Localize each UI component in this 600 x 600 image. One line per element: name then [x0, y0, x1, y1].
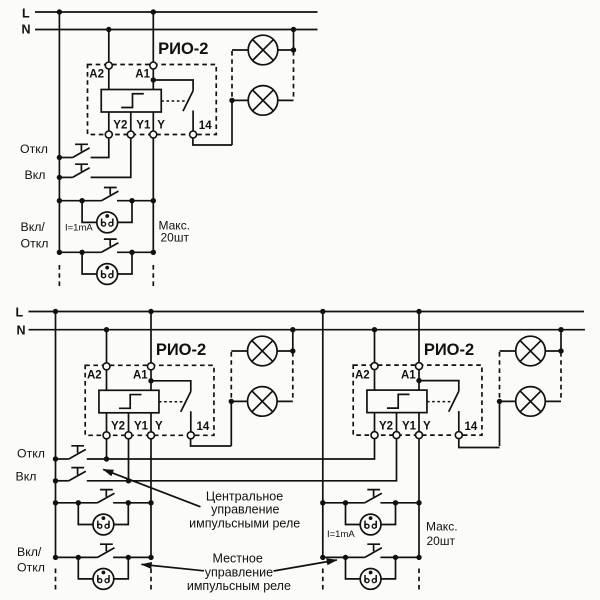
svg-text:Центральное: Центральное [206, 490, 283, 504]
svg-text:Вкл/: Вкл/ [21, 220, 46, 234]
svg-text:управление: управление [211, 503, 279, 517]
svg-text:Макс.: Макс. [426, 520, 458, 534]
svg-text:Откл: Откл [17, 447, 45, 461]
svg-text:I=1mA: I=1mA [327, 529, 355, 540]
svg-text:импульсным реле: импульсным реле [187, 579, 291, 593]
svg-text:N: N [22, 23, 31, 37]
svg-text:управление: управление [205, 565, 273, 579]
svg-text:L: L [22, 7, 30, 21]
svg-text:Откл: Откл [17, 560, 45, 574]
svg-text:N: N [17, 324, 26, 338]
svg-text:I=1mA: I=1mA [65, 223, 93, 234]
svg-text:Вкл: Вкл [16, 470, 37, 484]
svg-text:Откл: Откл [21, 236, 49, 250]
svg-text:20шт: 20шт [161, 230, 190, 244]
svg-text:импульсными реле: импульсными реле [189, 516, 300, 530]
svg-text:Вкл/: Вкл/ [17, 545, 42, 559]
svg-text:Вкл: Вкл [25, 168, 46, 182]
svg-text:Откл: Откл [20, 142, 48, 156]
svg-text:Местное: Местное [213, 551, 263, 565]
svg-text:L: L [16, 306, 24, 320]
svg-text:20шт: 20шт [427, 534, 456, 548]
